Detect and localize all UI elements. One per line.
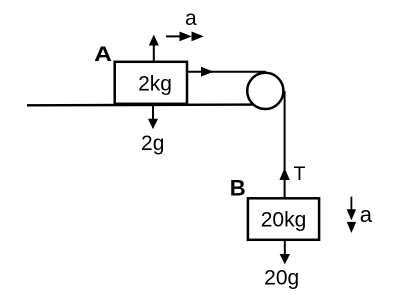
svg-text:A: A (94, 42, 112, 66)
svg-text:a: a (360, 202, 373, 227)
pulley (247, 73, 283, 109)
svg-text:a: a (185, 7, 197, 30)
label A (94, 42, 112, 66)
svg-text:2g: 2g (141, 132, 164, 155)
block A (2kg) (115, 62, 187, 104)
weight arrow 2g (block A) (148, 105, 158, 129)
acceleration arrow a (block B, double arrowhead down) (347, 197, 356, 233)
tension arrowhead on rope (201, 67, 214, 77)
svg-text:20g: 20g (264, 266, 299, 289)
block B (20kg) (248, 198, 319, 240)
rope from block A to pulley (188, 71, 266, 73)
label 20g (264, 266, 299, 289)
weight arrow 20g (block B) (280, 240, 290, 264)
vertical rope from pulley to block B (284, 91, 286, 197)
label a (right) (360, 202, 373, 227)
label B (230, 176, 246, 201)
normal force arrow on block A (149, 35, 159, 62)
label 2g (141, 132, 164, 155)
svg-text:20kg: 20kg (261, 209, 307, 232)
label T (294, 163, 306, 185)
table surface line (27, 103, 255, 106)
acceleration arrow a (block A, double arrowhead right) (166, 32, 204, 42)
svg-text:T: T (294, 163, 306, 185)
tension arrow T on rope (279, 168, 289, 180)
label a (top) (185, 7, 197, 30)
svg-text:B: B (230, 176, 246, 201)
svg-text:2kg: 2kg (138, 73, 172, 96)
